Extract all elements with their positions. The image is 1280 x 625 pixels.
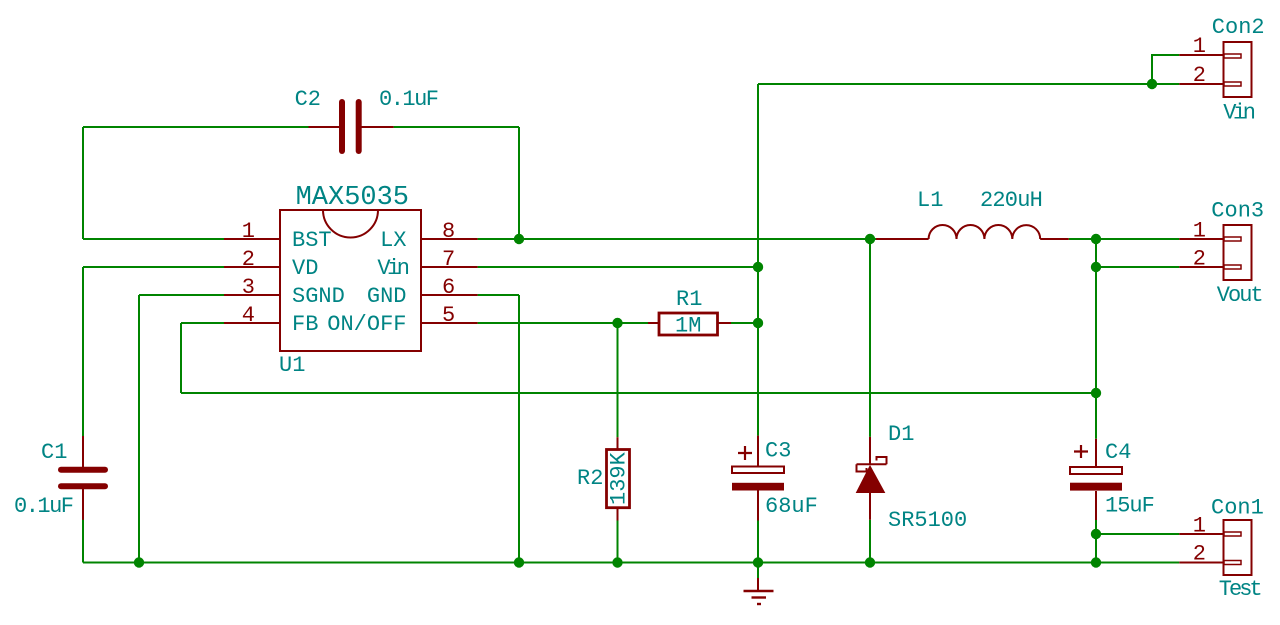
svg-text:0.1uF: 0.1uF [379,87,438,112]
svg-text:1M: 1M [675,314,701,339]
svg-text:Con2: Con2 [1212,15,1265,40]
svg-text:Vin: Vin [377,256,408,281]
svg-text:Vout: Vout [1217,283,1262,308]
svg-text:2: 2 [1193,247,1206,272]
svg-text:VD: VD [292,256,318,281]
svg-text:15uF: 15uF [1105,494,1154,519]
svg-text:LX: LX [380,228,406,253]
svg-text:8: 8 [442,219,455,244]
svg-text:FB: FB [292,312,318,337]
svg-text:220uH: 220uH [980,188,1042,213]
svg-text:Test: Test [1219,577,1261,602]
svg-text:R2: R2 [577,466,603,491]
svg-text:R1: R1 [676,287,702,312]
svg-text:1: 1 [1193,514,1206,539]
svg-text:SR5100: SR5100 [888,508,967,533]
svg-text:C3: C3 [765,438,791,463]
svg-text:ON/OFF: ON/OFF [327,312,406,337]
svg-text:2: 2 [1193,63,1206,88]
svg-text:7: 7 [442,247,455,272]
svg-text:C1: C1 [41,440,67,465]
svg-text:1: 1 [1193,34,1206,59]
svg-text:3: 3 [242,275,255,300]
svg-text:2: 2 [242,247,255,272]
svg-text:Vin: Vin [1223,101,1254,126]
svg-text:L1: L1 [917,188,943,213]
svg-text:U1: U1 [279,353,305,378]
svg-text:5: 5 [442,303,455,328]
svg-text:MAX5035: MAX5035 [296,183,409,213]
svg-text:2: 2 [1193,542,1206,567]
svg-text:Con1: Con1 [1211,495,1264,520]
svg-text:SGND: SGND [292,284,345,309]
svg-text:1: 1 [242,219,255,244]
svg-text:1: 1 [1193,219,1206,244]
svg-text:68uF: 68uF [765,494,818,519]
svg-text:0.1uF: 0.1uF [14,494,73,519]
svg-text:4: 4 [242,303,255,328]
svg-text:C2: C2 [295,87,321,112]
svg-text:139K: 139K [607,451,632,505]
svg-text:6: 6 [442,275,455,300]
svg-text:GND: GND [367,284,407,309]
svg-text:BST: BST [292,228,332,253]
svg-text:Con3: Con3 [1211,199,1264,224]
svg-text:C4: C4 [1105,440,1131,465]
svg-text:D1: D1 [888,422,914,447]
